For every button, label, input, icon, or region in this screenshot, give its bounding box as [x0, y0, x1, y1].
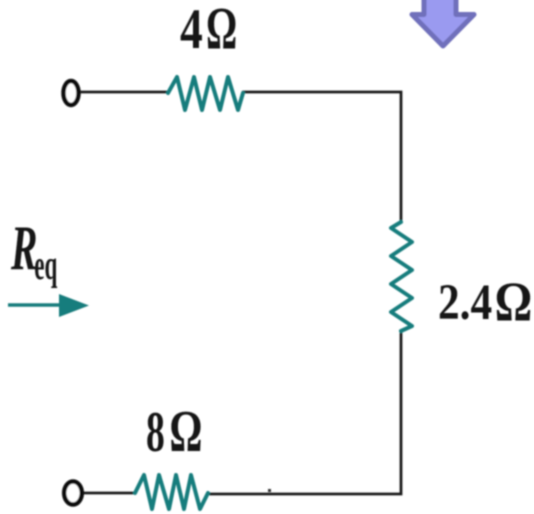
svg-text:eq: eq — [34, 243, 57, 289]
svg-text:Ω: Ω — [206, 0, 237, 61]
svg-text:8: 8 — [146, 401, 165, 464]
svg-text:Ω: Ω — [495, 272, 533, 334]
svg-text:2.4: 2.4 — [438, 275, 492, 331]
svg-text:Ω: Ω — [169, 400, 202, 465]
svg-text:R: R — [10, 214, 37, 283]
svg-text:4: 4 — [180, 0, 203, 61]
